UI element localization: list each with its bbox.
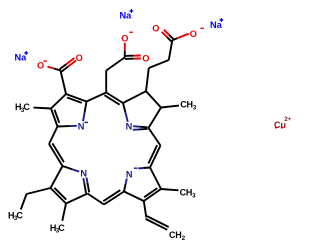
- svg-text:N: N: [80, 168, 87, 178]
- svg-text:N: N: [126, 122, 133, 132]
- svg-text:Na: Na: [120, 11, 133, 21]
- svg-text:O: O: [76, 53, 83, 63]
- svg-text:O: O: [37, 61, 44, 71]
- svg-text:O: O: [190, 29, 197, 39]
- svg-text:Na: Na: [210, 20, 223, 30]
- svg-text:C: C: [58, 223, 65, 233]
- svg-text:O: O: [142, 54, 149, 64]
- svg-text:C: C: [23, 102, 30, 112]
- svg-text:O: O: [121, 33, 128, 43]
- svg-text:O: O: [152, 23, 159, 33]
- svg-text:N: N: [126, 170, 133, 180]
- svg-text:2+: 2+: [284, 116, 291, 123]
- svg-text:Na: Na: [15, 53, 28, 63]
- svg-text:C: C: [16, 210, 23, 220]
- svg-text:N: N: [78, 121, 85, 131]
